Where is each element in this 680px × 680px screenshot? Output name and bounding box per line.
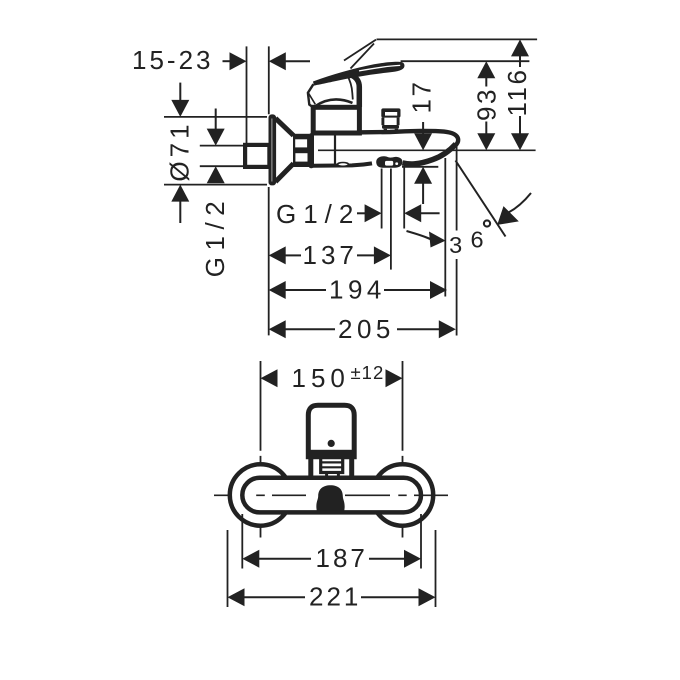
dimension 93 bottom arrow	[477, 133, 495, 150]
body end cap bar	[309, 133, 314, 168]
handle front sides below	[311, 455, 352, 478]
svg-text:G1/2: G1/2	[200, 195, 230, 277]
dimension 93 top arrow	[477, 61, 495, 78]
cartridge cap	[313, 107, 359, 133]
svg-text:116: 116	[502, 68, 532, 117]
wall connection nipple square	[245, 145, 269, 167]
right escutcheon circle	[372, 464, 433, 525]
dimension 150 left arrow	[261, 369, 278, 387]
cartridge nut front	[321, 457, 343, 473]
svg-text:137: 137	[303, 240, 358, 270]
extension line 15-23 right / wall face upper	[268, 46, 270, 114]
dimension 187 right arrow	[369, 550, 421, 568]
handle lever swoosh	[313, 62, 404, 86]
handle dot	[328, 440, 335, 447]
dimension 221 right arrow	[361, 588, 436, 606]
dimension 116 bottom arrow	[511, 133, 529, 150]
dimension G1/2 middle right arrow	[404, 204, 439, 222]
svg-text:15-23: 15-23	[132, 45, 214, 75]
dimension 17 text	[407, 80, 437, 114]
ref line top (handle tip level, 116 reference)	[377, 38, 538, 40]
svg-text:194: 194	[329, 275, 386, 305]
handle inner curve	[347, 75, 353, 100]
dimension 205 left arrow	[269, 320, 335, 338]
dimension G1/2 middle left arrow	[357, 204, 382, 222]
extension line 15-23 left	[246, 46, 248, 144]
extension line spout tip (205)	[456, 144, 458, 336]
extension line 187 left	[241, 514, 243, 569]
aerator outlet blob	[376, 156, 402, 168]
svg-text:187: 187	[316, 543, 368, 573]
extension line 221 right	[435, 530, 437, 607]
dimension 205 right arrow	[397, 320, 456, 338]
extension line outlet centre	[390, 169, 392, 270]
handle underside edge	[315, 99, 353, 106]
handle tip outline lower	[351, 44, 375, 69]
dimension 187 left arrow	[242, 550, 311, 568]
extension line outlet thread left	[381, 169, 383, 229]
dimension 93 text	[472, 87, 502, 122]
extension line outlet thread right	[403, 168, 405, 229]
union nut	[293, 134, 309, 167]
body/spout seam	[334, 135, 336, 165]
escutcheon face plate bar	[269, 114, 277, 185]
svg-text:3: 3	[449, 232, 462, 258]
centre line left (150 extension)	[260, 361, 262, 538]
ref line (aerator bottom, 17 reference)	[402, 166, 438, 168]
centre line right (150 extension)	[402, 361, 404, 538]
cartridge foot	[327, 473, 339, 478]
dimension 150 right arrow	[386, 369, 403, 387]
extension line spout outlet (194)	[444, 158, 446, 297]
horizontal centre line	[214, 494, 448, 496]
escutcheon cone bottom edge	[276, 164, 294, 182]
dimension 194 left arrow	[269, 281, 326, 299]
dimension 116 line	[519, 56, 521, 134]
body top outline and spout	[313, 131, 458, 146]
extension line escutcheon top (Ø71)	[164, 116, 267, 118]
svg-text:150: 150	[292, 363, 350, 393]
extension line wall face lower	[268, 187, 270, 335]
body bottom outline	[313, 163, 372, 165]
centre blob on capsule	[316, 485, 344, 512]
handle swoosh slit	[359, 65, 400, 71]
aerator hole	[385, 161, 393, 166]
36 degree angle line	[456, 161, 506, 237]
left escutcheon circle	[230, 464, 291, 525]
36 degree arc left tail and arrow	[407, 231, 446, 248]
escutcheon highlight slit	[271, 119, 272, 182]
dimension 17 stem lower	[422, 183, 424, 204]
dimension 93 line	[485, 78, 487, 134]
extension line nipple top (G1/2)	[200, 145, 246, 147]
svg-text:Ø71: Ø71	[165, 120, 195, 181]
dimension 137 left arrow	[269, 246, 301, 264]
36 degree text	[448, 220, 490, 259]
dimension 221 left arrow	[228, 588, 306, 606]
36 degree arc right tail and arrow	[497, 193, 531, 225]
dimension 137 right arrow	[357, 246, 391, 264]
screw detail oval	[338, 163, 349, 167]
extension line escutcheon bottom (Ø71)	[164, 184, 267, 186]
dimension 15-23 left arrow	[223, 52, 247, 70]
dimension G1/2 left lower arrow	[207, 166, 225, 183]
ref line (lever grip level, 93 reference)	[401, 60, 530, 62]
svg-text:G1/2: G1/2	[276, 199, 360, 229]
dimension G1/2 left upper arrow	[207, 109, 225, 146]
handle left inner line	[309, 93, 316, 104]
dimension 17 upper arrow	[414, 133, 432, 150]
extension line 221 left	[227, 530, 229, 607]
dimension 194 right arrow	[384, 281, 447, 299]
extension line 187 right	[420, 514, 422, 569]
svg-text:93: 93	[472, 87, 502, 121]
dimension 116 top arrow	[511, 39, 529, 56]
dimension Ø71 bottom arrow	[171, 185, 189, 223]
handle front base band	[308, 450, 354, 457]
wall bar capsule	[242, 478, 421, 513]
handle left edge	[308, 84, 314, 107]
aerator small notch	[395, 162, 398, 165]
dimension Ø71 top arrow	[171, 83, 189, 117]
handle tip outline upper	[344, 40, 376, 61]
handle neck	[351, 75, 359, 107]
svg-text:221: 221	[309, 582, 361, 612]
ref line (spout outlet level)	[318, 149, 536, 151]
dimension 116 text	[502, 67, 532, 116]
svg-text:205: 205	[338, 314, 395, 344]
svg-text:17: 17	[407, 80, 437, 114]
dimension 17 lower arrow	[414, 167, 432, 184]
spout underside curve	[403, 144, 456, 164]
escutcheon cone top edge	[276, 118, 294, 135]
extension line nipple bottom (G1/2)	[200, 165, 246, 167]
handle front body	[308, 405, 354, 457]
dimension 17 stem upper	[422, 122, 424, 137]
dimension 15-23 right arrow	[269, 52, 310, 70]
diverter knob on body	[381, 108, 400, 131]
cartridge nut inner lines	[322, 462, 342, 467]
svg-text:6: 6	[470, 226, 483, 252]
svg-text:±12: ±12	[351, 362, 385, 383]
